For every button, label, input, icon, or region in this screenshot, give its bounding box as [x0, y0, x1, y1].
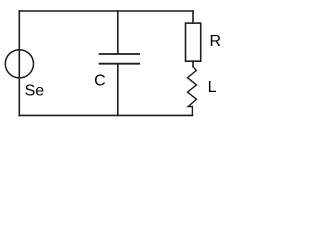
- svg-text:Se: Se: [25, 83, 45, 100]
- wire top: [19, 10, 193, 12]
- svg-text:L: L: [208, 79, 217, 96]
- capacitor C bottom lead: [117, 65, 119, 116]
- svg-text:C: C: [94, 72, 106, 89]
- wire bottom: [19, 114, 192, 116]
- resistor R: [186, 23, 201, 61]
- capacitor C plates: [100, 54, 140, 64]
- wire right top: [192, 11, 194, 23]
- wire resistor to inductor: [192, 61, 194, 66]
- svg-text:R: R: [210, 33, 222, 50]
- inductor L: [188, 67, 197, 116]
- wire left: [18, 11, 20, 115]
- capacitor C top lead: [117, 11, 119, 53]
- source Se: [5, 50, 33, 78]
